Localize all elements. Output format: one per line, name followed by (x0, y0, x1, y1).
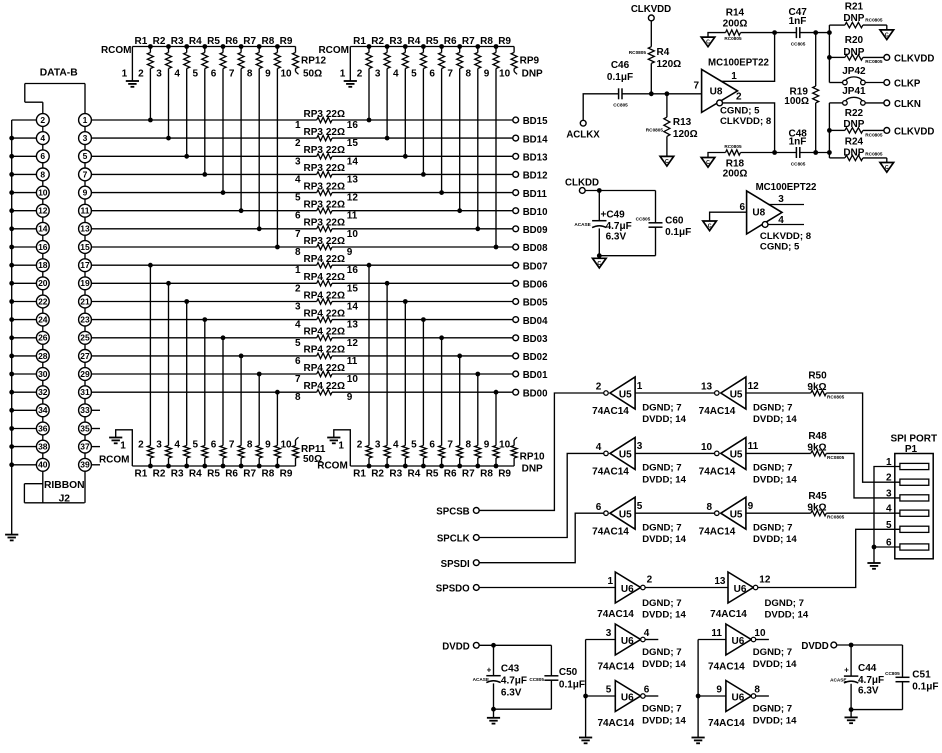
svg-text:2: 2 (40, 115, 45, 125)
svg-text:CC805: CC805 (613, 102, 628, 107)
svg-text:DVDD: DVDD (442, 641, 469, 652)
svg-text:3: 3 (295, 302, 301, 313)
resistor R22 DNP (829, 108, 884, 137)
wire row BD02 left segment (91, 355, 317, 357)
J2 pin 12 (36, 204, 49, 217)
svg-text:5: 5 (193, 69, 199, 80)
svg-text:8: 8 (295, 392, 301, 403)
svg-text:5: 5 (411, 440, 417, 451)
resistor R24 DNP (829, 137, 886, 161)
node DVDD terminal right (801, 641, 836, 652)
svg-text:+C49: +C49 (601, 210, 626, 221)
svg-text:BD06: BD06 (523, 280, 548, 291)
svg-text:74AC14: 74AC14 (592, 467, 629, 478)
svg-text:6.3V: 6.3V (606, 232, 627, 243)
resistor network RP12 RCOM label (101, 45, 132, 56)
wire U5 row 2 output (746, 392, 811, 394)
svg-text:2: 2 (138, 69, 144, 80)
svg-text:RP3: RP3 (304, 163, 324, 174)
capacitor C60 0.1uF (636, 191, 692, 256)
svg-text:25: 25 (80, 333, 90, 343)
resistor RP12 element R3 (171, 36, 190, 80)
svg-text:DNP: DNP (843, 119, 864, 130)
svg-text:10: 10 (701, 442, 713, 453)
jumper JP41 (829, 86, 884, 105)
wire row BD07 left segment (91, 264, 317, 266)
inverter U6 74AC14 pins 11/10 (708, 624, 797, 673)
ground J2 bus (5, 535, 18, 541)
svg-text:CGND; 5: CGND; 5 (720, 105, 760, 116)
svg-text:22Ω: 22Ω (326, 254, 345, 265)
svg-text:32: 32 (38, 387, 48, 397)
svg-text:10: 10 (347, 374, 359, 385)
resistor R14 200ohm (708, 8, 775, 41)
svg-text:U6: U6 (732, 692, 745, 703)
svg-text:5: 5 (295, 338, 301, 349)
capacitor C47 1nF (789, 7, 808, 47)
wire BD14 column from left network (168, 70, 170, 138)
svg-text:5: 5 (886, 520, 892, 531)
wire BD04 column from right network (422, 320, 424, 441)
J2 pin 32 (36, 386, 49, 399)
svg-text:1nF: 1nF (789, 16, 807, 27)
inverter U5 74AC14 pins 10/11 (699, 437, 798, 485)
resistor RP9 element R7 (462, 36, 481, 80)
svg-text:22Ω: 22Ω (326, 290, 345, 301)
J2 pin 30 (36, 368, 49, 381)
svg-text:6.3V: 6.3V (501, 687, 522, 698)
svg-text:3: 3 (886, 488, 892, 499)
resistor network RP11 RCOM label (99, 455, 130, 466)
resistor RP3 pack element pins 2/15 (295, 127, 358, 149)
wire BD15 column from right network (368, 70, 370, 120)
wire J2 even-pin ground bus (9, 120, 36, 535)
J2 pin 26 (36, 331, 49, 344)
wire lower branch column (827, 103, 832, 158)
resistor RP10 element R9 (498, 437, 517, 479)
resistor network RP9 value label (520, 56, 543, 80)
svg-text:U6: U6 (621, 636, 634, 647)
wire BD02 column from right network (459, 356, 461, 441)
svg-text:1nF: 1nF (789, 137, 807, 148)
svg-text:R7: R7 (462, 469, 475, 480)
wire BD02 column from left network (240, 356, 242, 441)
svg-text:4: 4 (393, 69, 399, 80)
svg-text:5: 5 (606, 685, 612, 696)
resistor RP10 element R4 (408, 440, 427, 480)
svg-text:5: 5 (83, 151, 88, 161)
svg-text:7: 7 (229, 440, 235, 451)
resistor RP9 element R9 (498, 36, 517, 80)
ground U6 riser 3 (579, 738, 592, 744)
svg-text:6: 6 (429, 69, 435, 80)
svg-text:DGND; 7: DGND; 7 (753, 463, 792, 474)
node CLKVDD terminal R22 (884, 127, 934, 138)
svg-text:RP4: RP4 (304, 272, 324, 283)
svg-text:DVDD; 14: DVDD; 14 (642, 414, 686, 425)
wire U8 pin 4 output (768, 215, 804, 226)
svg-text:RP4: RP4 (304, 290, 324, 301)
svg-text:22Ω: 22Ω (326, 200, 345, 211)
svg-text:R4: R4 (657, 47, 670, 58)
resistor RP4 pack element pins 2/15 (295, 272, 358, 294)
svg-text:U8: U8 (710, 87, 723, 98)
svg-text:29: 29 (80, 369, 90, 379)
ground CLKDD CGND (593, 256, 607, 268)
node BD07 terminal (513, 261, 548, 272)
wire row BD01 right segment (257, 372, 513, 377)
svg-text:CC805: CC805 (791, 41, 806, 46)
svg-text:RC0805: RC0805 (646, 127, 664, 132)
resistor RP4 pack element pins 1/16 (295, 254, 358, 276)
wire J2 pin 37 stub (91, 446, 100, 448)
node BD02 terminal (513, 352, 548, 363)
svg-text:6: 6 (211, 440, 217, 451)
svg-text:JP41: JP41 (842, 86, 866, 97)
ground R14 CGND (701, 37, 715, 47)
wire row BD05 left segment (91, 301, 317, 303)
wire CLKVDD to R4 (650, 21, 652, 47)
svg-text:22Ω: 22Ω (326, 218, 345, 229)
svg-text:U5: U5 (619, 450, 632, 461)
svg-text:DGND; 7: DGND; 7 (753, 402, 792, 413)
svg-text:24: 24 (38, 315, 48, 325)
svg-text:R20: R20 (845, 35, 864, 46)
wire BD13 column from right network (404, 70, 406, 156)
resistor RP11 element R5 (207, 440, 226, 480)
wire DVDD left bottom (491, 707, 551, 712)
svg-text:74AC14: 74AC14 (592, 406, 629, 417)
svg-text:RP4: RP4 (304, 345, 324, 356)
svg-text:BD02: BD02 (523, 352, 548, 363)
svg-text:R6: R6 (225, 36, 238, 47)
resistor R45 9k (807, 491, 844, 520)
svg-text:R21: R21 (845, 2, 864, 13)
svg-text:CC805: CC805 (636, 217, 651, 222)
wire row BD02 right segment (239, 354, 513, 359)
wire row BD13 right segment (184, 154, 513, 159)
svg-text:C: C (706, 160, 710, 166)
svg-text:RP3: RP3 (304, 181, 324, 192)
svg-text:4: 4 (393, 440, 399, 451)
svg-text:DVDD; 14: DVDD; 14 (753, 474, 797, 485)
resistor network RP12 pin 1 ground (122, 47, 139, 87)
svg-text:C44: C44 (858, 663, 877, 674)
svg-text:RC0805: RC0805 (865, 152, 883, 157)
resistor RP10 element R6 (444, 440, 463, 480)
svg-text:22Ω: 22Ω (326, 163, 345, 174)
J2 pin 17 (79, 259, 92, 272)
wire R45 to SPI pin 4 (826, 512, 900, 514)
wire upper branch column (827, 25, 832, 82)
svg-text:U6: U6 (621, 692, 634, 703)
svg-text:74AC14: 74AC14 (597, 609, 634, 620)
svg-text:RC0805: RC0805 (724, 144, 742, 149)
wire BD03 column from left network (222, 338, 224, 441)
op-amp U8 buffer MC100EPT22 gate A (693, 58, 771, 127)
svg-text:RP3: RP3 (304, 236, 324, 247)
capacitor C43 4.7uF ACASE (473, 645, 527, 709)
svg-text:SPI PORT: SPI PORT (890, 433, 937, 444)
wire row BD11 right segment (221, 190, 513, 195)
svg-text:12: 12 (38, 206, 48, 216)
inverter U6 74AC14 pins 3/4 (597, 624, 686, 673)
op-amp U8 buffer MC100EPT22 gate B (747, 182, 817, 252)
svg-text:DVDD; 14: DVDD; 14 (642, 534, 686, 545)
svg-text:R50: R50 (808, 371, 827, 382)
svg-text:34: 34 (38, 405, 48, 415)
wire U6 stage link SPSDO (645, 587, 728, 589)
wire SPSDO to U6 pin 1 (479, 587, 615, 589)
svg-text:RP3: RP3 (304, 127, 324, 138)
resistor RP12 element R7 (243, 36, 262, 80)
resistor RP12 element R4 (189, 36, 208, 80)
svg-text:1: 1 (295, 265, 301, 276)
wire row BD03 right segment (221, 335, 513, 340)
svg-text:11: 11 (81, 206, 90, 216)
resistor RP9 element R5 (426, 36, 445, 80)
resistor RP10 element R3 (389, 440, 408, 480)
svg-text:BD11: BD11 (523, 189, 548, 200)
svg-text:9: 9 (484, 440, 490, 451)
svg-text:DGND; 7: DGND; 7 (753, 523, 792, 534)
node BD09 terminal (513, 225, 548, 236)
wire C47 to branch column (800, 30, 832, 35)
svg-text:11: 11 (347, 211, 358, 222)
svg-text:C51: C51 (912, 670, 931, 681)
svg-text:R1: R1 (353, 469, 366, 480)
svg-text:R13: R13 (673, 117, 692, 128)
wire U5 stage link row 6 (635, 512, 714, 514)
node SPCLK terminal (437, 534, 479, 545)
svg-text:3: 3 (606, 628, 612, 639)
resistor network RP11 value label (301, 444, 326, 465)
wire CLKDD bottom (597, 253, 656, 258)
node BD01 terminal (513, 370, 548, 381)
wire SPI ground bus pins 1 and 6 (872, 467, 900, 564)
svg-text:74AC14: 74AC14 (699, 467, 736, 478)
wire row BD04 left segment (91, 319, 317, 321)
svg-text:DVDD; 14: DVDD; 14 (753, 414, 797, 425)
svg-text:10: 10 (499, 69, 511, 80)
wire BD06 column from right network (386, 283, 388, 441)
svg-text:74AC14: 74AC14 (708, 662, 745, 673)
J2 pin 16 (36, 241, 49, 254)
svg-text:RP3: RP3 (304, 218, 324, 229)
svg-text:2: 2 (295, 283, 301, 294)
wire BD00 column from left network (276, 392, 278, 441)
svg-text:RP10: RP10 (520, 452, 545, 463)
svg-text:10: 10 (499, 440, 511, 451)
svg-text:3: 3 (637, 441, 643, 452)
ground DVDD right (845, 710, 858, 724)
J2 pin 40 (36, 458, 49, 471)
svg-text:C: C (597, 261, 601, 267)
resistor RP11 element R2 (153, 440, 172, 480)
svg-text:C60: C60 (665, 215, 684, 226)
svg-text:R2: R2 (371, 36, 384, 47)
svg-text:C: C (665, 159, 669, 165)
svg-text:R48: R48 (808, 431, 827, 442)
svg-text:6: 6 (295, 356, 301, 367)
svg-text:22Ω: 22Ω (326, 308, 345, 319)
wire SPCLK to U5 pin 4 (479, 453, 604, 537)
svg-text:4.7μF: 4.7μF (858, 675, 884, 686)
svg-text:R6: R6 (225, 469, 238, 480)
node BD12 terminal (513, 171, 548, 182)
svg-text:11: 11 (748, 441, 759, 452)
svg-text:15: 15 (347, 283, 359, 294)
wire BD11 column from left network (222, 70, 224, 193)
svg-text:DGND; 7: DGND; 7 (642, 647, 681, 658)
svg-text:10: 10 (38, 188, 48, 198)
svg-text:DNP: DNP (522, 464, 543, 475)
J2 pin 39 (79, 458, 92, 471)
svg-text:R7: R7 (243, 36, 256, 47)
svg-text:6: 6 (644, 684, 650, 695)
svg-text:BD08: BD08 (523, 243, 548, 254)
connector P1 body (886, 454, 933, 559)
svg-text:RP4: RP4 (304, 363, 324, 374)
svg-text:R5: R5 (426, 469, 439, 480)
svg-text:7: 7 (83, 169, 88, 179)
svg-text:8: 8 (295, 247, 301, 258)
svg-text:R14: R14 (726, 8, 745, 19)
svg-text:3: 3 (156, 440, 162, 451)
svg-text:28: 28 (38, 351, 48, 361)
J2 pin 37 (79, 440, 92, 453)
svg-text:R7: R7 (462, 36, 475, 47)
svg-text:30: 30 (38, 369, 48, 379)
svg-text:74AC14: 74AC14 (597, 718, 634, 729)
svg-text:9kΩ: 9kΩ (807, 382, 826, 393)
svg-text:4: 4 (778, 215, 784, 226)
svg-text:CLKVDD; 8: CLKVDD; 8 (760, 231, 812, 242)
svg-text:20: 20 (38, 278, 48, 288)
J2 pin 11 (79, 204, 92, 217)
wire BD13 column from left network (186, 70, 188, 156)
svg-text:C46: C46 (611, 60, 630, 71)
resistor RP11 element R7 (243, 440, 262, 480)
inverter U6 74AC14 pins 13/12 (710, 572, 809, 621)
svg-text:22: 22 (38, 296, 48, 306)
resistor RP12 element R9 (280, 36, 299, 80)
node SPSDI terminal (441, 559, 480, 570)
svg-text:16: 16 (347, 120, 359, 131)
svg-text:15: 15 (80, 242, 90, 252)
svg-text:U5: U5 (619, 389, 632, 400)
svg-text:R9: R9 (498, 469, 511, 480)
svg-text:22Ω: 22Ω (326, 381, 345, 392)
node BD03 terminal (513, 334, 548, 345)
svg-text:50Ω: 50Ω (303, 69, 322, 80)
svg-text:BD12: BD12 (523, 171, 548, 182)
svg-text:1: 1 (83, 115, 88, 125)
svg-text:120Ω: 120Ω (657, 59, 682, 70)
svg-text:6: 6 (429, 440, 435, 451)
svg-text:13: 13 (701, 382, 713, 393)
svg-text:0.1μF: 0.1μF (665, 227, 691, 238)
resistor RP9 element R3 (389, 36, 408, 80)
svg-text:10: 10 (280, 69, 292, 80)
inverter U5 74AC14 pins 6/5 (592, 497, 686, 545)
J2 pin 4 (36, 132, 49, 145)
wire BD04 column from left network (204, 320, 206, 441)
svg-text:RP3: RP3 (304, 200, 324, 211)
svg-text:MC100EPT22: MC100EPT22 (708, 58, 769, 69)
resistor R18 200ohm (708, 144, 775, 179)
svg-text:U8: U8 (752, 207, 765, 218)
ground SPI port (867, 563, 880, 569)
svg-text:R2: R2 (153, 469, 166, 480)
svg-text:DGND; 7: DGND; 7 (753, 704, 792, 715)
capacitor C48 1nF (789, 128, 808, 166)
ground DVDD left (487, 709, 500, 723)
wire DVDD left top (479, 643, 551, 648)
svg-text:6.3V: 6.3V (858, 686, 879, 697)
resistor R21 DNP (829, 2, 886, 28)
svg-text:27: 27 (80, 351, 90, 361)
svg-text:RP4: RP4 (304, 254, 324, 265)
svg-text:8: 8 (247, 69, 253, 80)
svg-text:BD15: BD15 (523, 116, 548, 127)
svg-text:11: 11 (347, 356, 358, 367)
svg-text:23: 23 (80, 315, 90, 325)
resistor network RP10 RCOM label (317, 461, 348, 472)
J2 pin 36 (36, 422, 49, 435)
svg-text:R2: R2 (371, 469, 384, 480)
ground R21 CGND (880, 25, 894, 39)
J2 pin 7 (79, 168, 92, 181)
wire SPSDI to U5 pin 6 (479, 513, 604, 563)
svg-text:8: 8 (466, 69, 472, 80)
svg-text:DVDD; 14: DVDD; 14 (642, 474, 686, 485)
node BD00 terminal (513, 388, 548, 399)
svg-text:9: 9 (347, 392, 353, 403)
svg-text:U5: U5 (619, 510, 632, 521)
resistor RP3 pack element pins 3/14 (295, 145, 358, 167)
node BD08 terminal (513, 243, 548, 254)
jumper JP42 (829, 66, 884, 85)
svg-text:CGND; 5: CGND; 5 (760, 241, 800, 252)
svg-text:RC0805: RC0805 (865, 132, 883, 137)
svg-text:120Ω: 120Ω (673, 129, 698, 140)
J2 pin 34 (36, 404, 49, 417)
svg-text:R4: R4 (408, 36, 421, 47)
wire BD01 column from right network (477, 374, 479, 441)
svg-text:RCOM: RCOM (317, 461, 348, 472)
svg-text:7: 7 (295, 229, 301, 240)
inverter U5 74AC14 pins 2/1 (592, 377, 686, 425)
wire bottom node to C48 (772, 150, 796, 155)
svg-text:2: 2 (357, 69, 363, 80)
resistor R4 120ohm (629, 47, 681, 70)
resistor R19 100ohm (784, 33, 818, 153)
svg-text:2: 2 (886, 473, 892, 484)
svg-text:0.1μF: 0.1μF (559, 679, 585, 690)
svg-text:9: 9 (265, 440, 271, 451)
svg-text:R1: R1 (353, 36, 366, 47)
wire U8 pin 2 output (723, 91, 775, 152)
svg-text:4.7μF: 4.7μF (501, 675, 527, 686)
svg-text:9kΩ: 9kΩ (807, 443, 826, 454)
resistor network RP9 pin 1 ground (340, 47, 357, 87)
svg-text:R2: R2 (153, 36, 166, 47)
svg-text:U5: U5 (730, 450, 743, 461)
svg-text:13: 13 (80, 224, 90, 234)
svg-text:R3: R3 (171, 469, 184, 480)
node CLKVDD terminal R20 (884, 54, 934, 65)
